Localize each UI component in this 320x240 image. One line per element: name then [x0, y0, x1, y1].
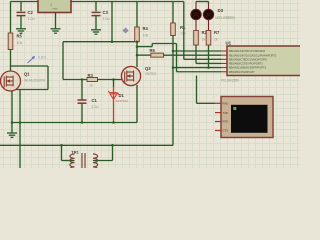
svg-text:GND: GND [53, 9, 58, 11]
bus A horizontal y122.5 [12, 122, 137, 124]
svg-text:RTS: RTS [223, 120, 229, 124]
svg-text:10k: 10k [17, 41, 23, 45]
svg-text:2N7002: 2N7002 [145, 72, 156, 76]
node C1 top junction [81, 78, 84, 81]
wire R4 bottom to Q3 drain [136, 42, 138, 67]
svg-text:10k: 10k [143, 34, 149, 38]
MCU pin stub p1 [221, 50, 227, 52]
svg-text:CTS: CTS [223, 129, 229, 133]
wire R3 to Q3 gate [98, 79, 123, 81]
node p5 junction [172, 66, 175, 69]
node R4 bottom junction [136, 40, 139, 43]
wire R7 to MCU p5 [208, 45, 210, 68]
node junction x112/y41 [111, 40, 114, 43]
bus B horizontal y145.3 [0, 144, 173, 146]
resistor R6 [151, 53, 164, 57]
node C1 bottom junction [81, 121, 84, 124]
MCU pin stub p3 [221, 58, 227, 60]
terminal pin RXD [215, 102, 221, 104]
svg-text:1.0u: 1.0u [28, 17, 35, 21]
wire LED D2 cathode [195, 19, 197, 31]
voltage probe marker [122, 28, 128, 34]
wire 12V branch down x112 [111, 2, 113, 42]
wire Q3 source to bus A [136, 85, 138, 123]
LED anode rail [196, 1, 209, 3]
svg-text:10k: 10k [180, 32, 186, 36]
resistor R7 [206, 31, 211, 46]
svg-text:R1: R1 [180, 25, 186, 30]
MCU pin stub p6 [221, 71, 227, 73]
wire MCU p1 row [173, 50, 221, 52]
svg-text:RB5/KBI1/PGM/PORT: RB5/KBI1/PGM/PORT [229, 70, 255, 74]
wire 7805 ground pin [55, 13, 57, 29]
terminal pin TXD [215, 112, 221, 114]
resistor R2 [194, 31, 199, 46]
svg-text:RB1/AN10/INT1/SCK/SCL/PMA4/POR: RB1/AN10/INT1/SCK/SCL/PMA4/PORT2 [229, 53, 277, 57]
transistor Q1 [1, 71, 21, 91]
svg-text:R6: R6 [150, 48, 156, 53]
svg-text:D1: D1 [119, 93, 125, 98]
svg-text:C1: C1 [92, 98, 98, 103]
wire long vertical x184 from rail [183, 2, 185, 60]
node R6 tap junction [136, 54, 139, 57]
svg-text:1N4733A: 1N4733A [116, 99, 129, 103]
LED D3 [208, 2, 210, 5]
svg-text:C2: C2 [28, 10, 34, 15]
svg-text:1.0u: 1.0u [103, 17, 110, 21]
svg-text:RB3/AN9/CCP2/VPO/PORT3: RB3/AN9/CCP2/VPO/PORT3 [229, 62, 264, 66]
transistor Q3 [121, 66, 140, 85]
svg-text:PIC18F2550: PIC18F2550 [221, 79, 239, 83]
svg-text:RB0/AN12/INT0/FLT0/SDI/SDA: RB0/AN12/INT0/FLT0/SDI/SDA [229, 49, 266, 53]
svg-text:RB2/AN8/CTEDG1/VMO/PORT0: RB2/AN8/CTEDG1/VMO/PORT0 [229, 57, 268, 61]
node x137/y46.6 junction [136, 45, 139, 48]
ground 7805 [51, 29, 61, 33]
node TR1 right tap [111, 144, 114, 147]
wire R5 column from rail [10, 2, 12, 34]
node Q1 source junction [11, 121, 14, 124]
wire R2 to MCU p4 [195, 45, 197, 63]
resistor R1 [172, 2, 174, 24]
wire R5 bottom to Q1 drain [10, 50, 12, 72]
wire R3 row left [63, 79, 87, 81]
svg-text:U1: U1 [226, 41, 232, 46]
svg-text:LED-GREEN: LED-GREEN [216, 16, 236, 20]
wire MCU p5 row [173, 67, 221, 69]
regulator U3 7805 [38, 0, 71, 13]
svg-text:Q3: Q3 [145, 66, 151, 71]
capacitor C1 [81, 80, 83, 100]
svg-text:C3: C3 [103, 10, 109, 15]
wire R1 bottom long vertical [172, 36, 174, 146]
svg-text:R5: R5 [17, 34, 23, 39]
svg-text:1k: 1k [89, 84, 93, 88]
wire MCU RX to terminal [196, 76, 198, 104]
wire D1 column upper [113, 80, 115, 88]
svg-text:D3: D3 [218, 8, 224, 13]
svg-text:RXD: RXD [223, 102, 229, 106]
node gate-busA junction [19, 121, 22, 124]
virtual terminal [221, 97, 273, 138]
svg-text:R4: R4 [143, 26, 149, 31]
node TR1 left tap [60, 144, 63, 147]
svg-text:TXD: TXD [223, 111, 229, 115]
probe label arrow [28, 57, 35, 63]
MCU pin stub p4 [221, 62, 227, 64]
node D1 bottom junction [112, 121, 115, 124]
wire Q1 source down [11, 91, 13, 123]
svg-text:RB4/AN11/KBI0/CSSPP/PORT5: RB4/AN11/KBI0/CSSPP/PORT5 [229, 66, 267, 70]
svg-text:9.8CL: 9.8CL [38, 56, 47, 60]
terminal pin RTS [215, 121, 221, 123]
terminal pin CTS [215, 130, 221, 132]
resistor R4 [136, 2, 138, 28]
svg-text:IRLML2502PB: IRLML2502PB [24, 79, 45, 83]
svg-text:1k: 1k [214, 38, 218, 42]
ground C2 [16, 29, 26, 33]
wire R6 to MCU p2 [164, 54, 222, 56]
resistor R5 [8, 33, 13, 50]
svg-text:1k: 1k [202, 38, 206, 42]
MCU pin stub p2 [221, 54, 227, 56]
wire horizontal y41 to R4 bottom [63, 41, 137, 43]
wire R6 left [137, 54, 151, 56]
svg-text:2.2u: 2.2u [92, 105, 99, 109]
LED D2 [195, 2, 197, 11]
diode D1 zener [113, 87, 115, 123]
svg-text:R3: R3 [88, 73, 94, 78]
ground C3 [91, 30, 101, 34]
capacitor C2 [20, 2, 22, 12]
resistor R3 [87, 78, 98, 82]
wire top power rail [11, 1, 184, 3]
node p1 junction [172, 50, 175, 53]
svg-text:R7: R7 [214, 30, 220, 35]
capacitor C3 [95, 2, 97, 12]
wire Q1 gate loop [11, 65, 49, 67]
wire LED D3 cathode [208, 19, 210, 31]
svg-text:Q1: Q1 [24, 72, 30, 77]
wire from Q3 drain column toward MCU p8 [137, 46, 152, 48]
MCU pin stub p5 [221, 67, 227, 69]
ground Q1 source [11, 123, 13, 134]
wire corner down x63 to R3 [62, 42, 64, 80]
wire MCU p3 row [184, 58, 221, 60]
node D1 top junction [112, 78, 115, 81]
